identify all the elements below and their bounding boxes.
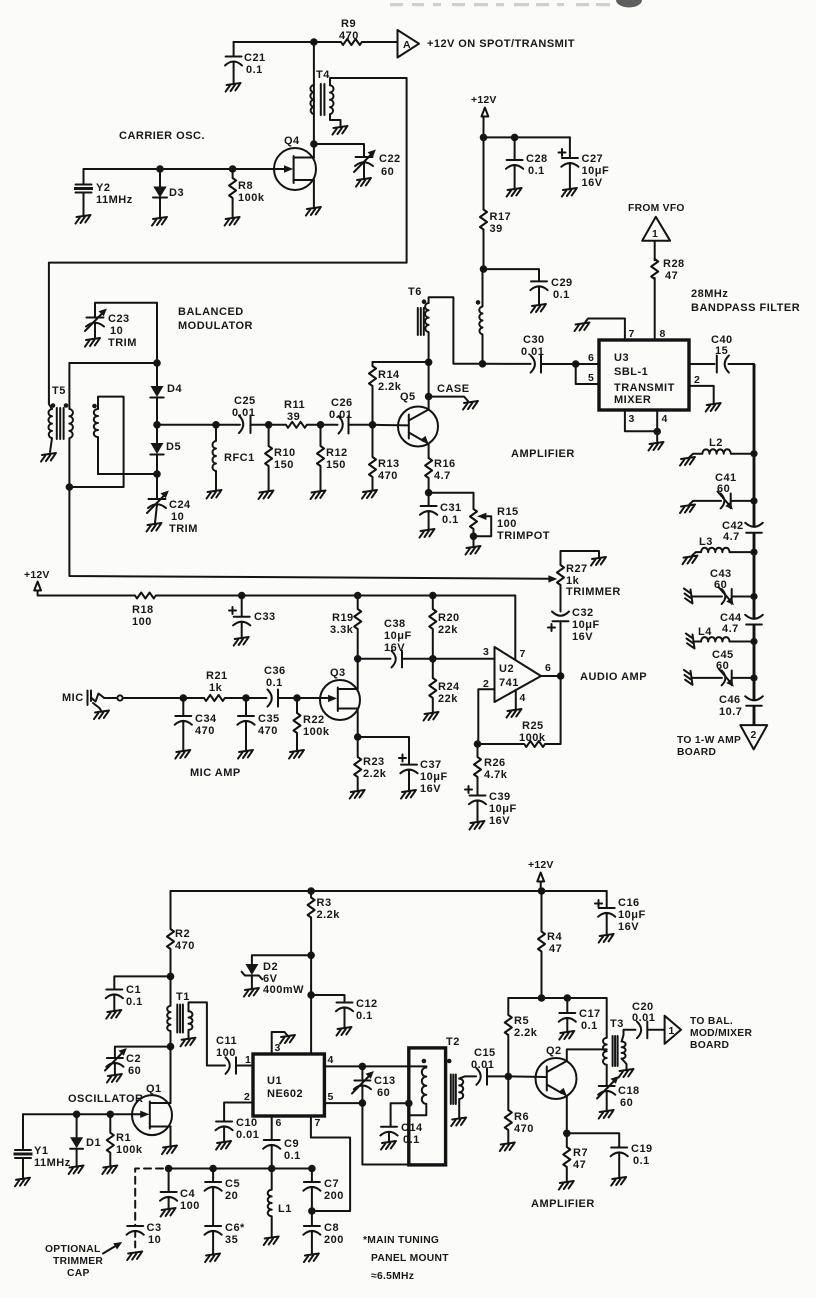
svg-text:3: 3 <box>483 646 489 658</box>
svg-text:R7: R7 <box>573 1147 588 1159</box>
svg-text:C33: C33 <box>254 611 276 623</box>
svg-text:2.2k: 2.2k <box>317 909 341 921</box>
resistor R3 <box>308 891 315 955</box>
wire carrier balance loop <box>69 397 123 487</box>
svg-text:TRIM: TRIM <box>169 523 198 535</box>
svg-text:47: 47 <box>573 1159 586 1171</box>
svg-text:3: 3 <box>629 413 635 425</box>
ground (T4) <box>333 126 348 135</box>
wire U1 pin6 to C9 <box>271 1116 273 1140</box>
junction CASE <box>425 393 433 401</box>
variable capacitor C2 <box>106 1047 170 1074</box>
svg-text:47: 47 <box>665 270 678 282</box>
svg-text:10μF: 10μF <box>582 165 610 177</box>
svg-text:D5: D5 <box>166 441 181 453</box>
node A output triangle <box>398 30 420 58</box>
ground (C35) <box>238 750 253 759</box>
ground (C27) <box>562 188 577 197</box>
svg-text:C26: C26 <box>331 397 353 409</box>
svg-text:100: 100 <box>132 616 152 628</box>
capacitor C11 <box>226 1057 254 1074</box>
svg-text:U1: U1 <box>267 1075 282 1087</box>
trimpot R15 <box>470 509 477 546</box>
junction Q3 source <box>354 733 362 741</box>
svg-text:T5: T5 <box>52 385 66 397</box>
diode D3 <box>153 169 167 217</box>
svg-text:150: 150 <box>326 459 346 471</box>
wire C21 node to Q4 drain top <box>234 41 314 43</box>
capacitor C27 (electrolytic) <box>561 137 578 188</box>
svg-text:2.2k: 2.2k <box>514 1027 538 1039</box>
ground (C8) <box>304 1254 319 1263</box>
junction Q3 drain / C38 <box>354 655 362 663</box>
capacitor C38 <box>358 651 433 668</box>
ground (R27) <box>591 557 606 566</box>
svg-text:CAP: CAP <box>67 1268 90 1279</box>
T6 secondary winding <box>479 269 482 364</box>
svg-text:22k: 22k <box>438 693 458 705</box>
svg-text:0.1: 0.1 <box>246 64 263 76</box>
resistor R5 <box>505 998 512 1076</box>
ground flag (L4) <box>686 634 695 649</box>
svg-text:C35: C35 <box>258 713 280 725</box>
svg-text:AMPLIFIER: AMPLIFIER <box>511 448 575 460</box>
resistor R19 <box>354 596 361 659</box>
resistor R8 <box>229 169 236 217</box>
wire +12V to C27 <box>484 136 570 138</box>
IC U1 box <box>253 1054 324 1116</box>
crystal Y1 <box>15 1114 31 1177</box>
svg-text:100: 100 <box>180 1200 200 1212</box>
svg-text:10: 10 <box>148 1234 161 1246</box>
svg-text:MIC AMP: MIC AMP <box>190 767 241 779</box>
svg-text:C19: C19 <box>631 1143 653 1155</box>
junction T6 secondary bottom <box>479 360 487 368</box>
svg-text:60: 60 <box>714 579 727 591</box>
svg-text:11MHz: 11MHz <box>96 194 133 206</box>
variable capacitor C24 <box>148 474 166 523</box>
svg-text:C16: C16 <box>618 897 640 909</box>
svg-text:C38: C38 <box>384 618 406 630</box>
capacitor C9 <box>263 1140 280 1169</box>
svg-text:200: 200 <box>324 1190 344 1202</box>
svg-text:60: 60 <box>381 166 394 178</box>
resistor R10 <box>265 425 272 490</box>
junction C2 <box>167 1043 175 1051</box>
svg-text:0.01: 0.01 <box>329 409 352 421</box>
svg-text:100: 100 <box>497 518 517 530</box>
svg-text:R2: R2 <box>175 928 190 940</box>
junction Q2 base node <box>505 1073 513 1081</box>
wire U1 pin7 path <box>311 1116 350 1211</box>
capacitor C40 <box>689 356 754 373</box>
svg-text:R18: R18 <box>132 604 154 616</box>
svg-text:5: 5 <box>328 1091 334 1103</box>
svg-text:BOARD: BOARD <box>677 747 716 758</box>
svg-text:C3: C3 <box>147 1222 162 1234</box>
wire T5 top link <box>69 362 157 364</box>
svg-text:T3: T3 <box>610 1018 624 1030</box>
svg-text:16V: 16V <box>618 921 639 933</box>
ground (C14) <box>381 1141 396 1150</box>
capacitor C42 <box>745 523 763 533</box>
capacitor C5 <box>205 1169 222 1226</box>
ground (C12) <box>337 1027 352 1036</box>
svg-text:U2: U2 <box>499 663 514 675</box>
wire feedback from T4 down left side to T5 primary <box>49 263 407 409</box>
svg-text:R6: R6 <box>514 1111 529 1123</box>
wire top supply bus <box>171 890 607 892</box>
resistor R26 <box>474 744 481 795</box>
T5 tertiary winding <box>94 409 98 474</box>
svg-text:MODULATOR: MODULATOR <box>178 320 253 332</box>
svg-text:0.01: 0.01 <box>232 407 255 419</box>
svg-text:≈6.5MHz: ≈6.5MHz <box>371 1271 414 1282</box>
svg-text:4.7: 4.7 <box>723 531 740 543</box>
ground (C16) <box>599 934 614 943</box>
capacitor C46 <box>745 696 763 706</box>
ground (L2) <box>680 457 695 466</box>
capacitor C34 <box>175 698 192 750</box>
capacitor C19 <box>567 1133 628 1177</box>
svg-text:60: 60 <box>128 1065 141 1077</box>
wire Q4 gate bus <box>84 168 285 170</box>
junction drain/R9 <box>310 38 318 46</box>
capacitor C36 <box>246 690 297 707</box>
resistor R17 <box>480 210 487 270</box>
svg-text:C23: C23 <box>108 313 130 325</box>
T5 phase dots <box>51 403 56 408</box>
svg-text:C22: C22 <box>379 153 401 165</box>
junction U3 pin6 node <box>572 360 580 368</box>
svg-text:35: 35 <box>225 1234 238 1246</box>
ground (Y2) <box>76 215 91 224</box>
ground (C33) <box>234 637 249 646</box>
svg-text:0.1: 0.1 <box>266 677 283 689</box>
ground (R10) <box>259 491 274 500</box>
wire mic line <box>123 697 204 699</box>
ground (R1) <box>102 1166 117 1175</box>
resistor R2 <box>167 891 174 976</box>
junction D4 top <box>153 359 161 367</box>
svg-text:R15: R15 <box>497 506 519 518</box>
capacitor C21 <box>225 42 242 83</box>
svg-text:400mW: 400mW <box>263 984 304 996</box>
junction R10 <box>265 421 273 429</box>
capacitor C30 <box>483 355 576 372</box>
svg-text:C12: C12 <box>356 998 378 1010</box>
svg-text:10μF: 10μF <box>489 803 517 815</box>
svg-text:MOD/MIXER: MOD/MIXER <box>690 1028 752 1039</box>
svg-text:TRIMMER: TRIMMER <box>566 586 621 598</box>
ground (R12) <box>311 491 326 500</box>
junction C17 <box>564 994 572 1002</box>
svg-text:6: 6 <box>588 352 594 364</box>
ground (T5 primary) <box>41 453 56 462</box>
trimmer R27 <box>557 551 599 612</box>
svg-text:R5: R5 <box>514 1015 529 1027</box>
T5 tertiary phase dot <box>92 404 97 409</box>
svg-text:15: 15 <box>715 345 728 357</box>
svg-text:0.1: 0.1 <box>403 1134 420 1146</box>
wire U2 pin6 output <box>541 672 561 744</box>
svg-text:TRIM: TRIM <box>108 337 137 349</box>
svg-text:C37: C37 <box>420 759 442 771</box>
svg-text:T4: T4 <box>316 69 330 81</box>
svg-text:A: A <box>403 39 411 51</box>
junction C28 <box>511 134 519 142</box>
svg-text:R20: R20 <box>438 612 460 624</box>
svg-text:SBL-1: SBL-1 <box>614 366 648 378</box>
resistor R11 <box>269 422 321 428</box>
svg-text:C32: C32 <box>572 607 594 619</box>
svg-text:L2: L2 <box>709 437 723 449</box>
svg-text:0.1: 0.1 <box>581 1020 598 1032</box>
svg-text:10: 10 <box>110 325 123 337</box>
svg-text:0.1: 0.1 <box>442 514 459 526</box>
junction C7/C8/pin7 <box>308 1207 316 1215</box>
capacitor C37 (electrolytic) <box>358 737 418 790</box>
svg-text:AUDIO AMP: AUDIO AMP <box>580 671 647 683</box>
junction C38/R20/R24 <box>429 655 437 663</box>
resistor R25 <box>478 741 561 747</box>
svg-text:C17: C17 <box>579 1008 601 1020</box>
svg-text:Q1: Q1 <box>146 1083 162 1095</box>
ground (C19) <box>611 1177 626 1186</box>
ground (C23) <box>85 338 100 347</box>
svg-text:C8: C8 <box>324 1222 339 1234</box>
wire T3 secondary bottom to ground <box>622 1059 627 1069</box>
wire Q3 source <box>357 709 359 738</box>
capacitor C25 <box>239 416 269 434</box>
svg-text:TRIMMER: TRIMMER <box>53 1256 103 1267</box>
ground (Y1) <box>15 1178 30 1187</box>
variable capacitor C13 <box>354 1066 371 1103</box>
svg-text:C15: C15 <box>474 1047 496 1059</box>
capacitor C16 (electrolytic) <box>542 891 616 934</box>
junction R12 <box>317 421 325 429</box>
svg-text:R16: R16 <box>434 458 456 470</box>
svg-text:741: 741 <box>499 677 519 689</box>
ground (T3 secondary) <box>619 1069 634 1078</box>
IC U3 box <box>599 340 689 410</box>
capacitor C26 <box>321 416 373 434</box>
svg-text:Q5: Q5 <box>400 391 416 403</box>
capacitor C12 <box>311 995 353 1027</box>
ground (C1) <box>106 1010 121 1019</box>
svg-text:R19: R19 <box>332 612 354 624</box>
svg-text:R12: R12 <box>326 447 348 459</box>
T5 core <box>57 408 64 439</box>
ground (C22) <box>356 178 371 187</box>
svg-text:R10: R10 <box>274 447 296 459</box>
svg-text:C7: C7 <box>324 1178 339 1190</box>
T5 secondary winding on left line <box>69 363 73 487</box>
svg-text:11MHz: 11MHz <box>34 1157 71 1169</box>
svg-text:7: 7 <box>629 328 635 340</box>
junction modulator output <box>153 421 161 429</box>
svg-text:0.1: 0.1 <box>553 289 570 301</box>
pin 3 wire <box>625 410 657 431</box>
svg-text:1k: 1k <box>209 682 223 694</box>
diode D4 <box>150 363 163 424</box>
svg-text:1: 1 <box>652 228 658 240</box>
junction C12 node <box>307 991 315 999</box>
svg-text:C9: C9 <box>284 1138 299 1150</box>
svg-text:0.1: 0.1 <box>528 165 545 177</box>
svg-text:200: 200 <box>324 1234 344 1246</box>
svg-text:C1: C1 <box>126 984 141 996</box>
svg-text:7: 7 <box>520 648 526 660</box>
capacitor C15 <box>476 1068 508 1085</box>
ground flag (C43) <box>684 589 693 604</box>
svg-text:10: 10 <box>171 511 184 523</box>
pin 3 wire + ground <box>272 1032 287 1054</box>
svg-text:0.01: 0.01 <box>236 1129 259 1141</box>
ground (C37) <box>401 790 416 799</box>
junction T6/collector <box>425 359 433 367</box>
wire CASE to ground <box>429 397 468 401</box>
svg-text:NE602: NE602 <box>267 1088 303 1100</box>
svg-text:+12V: +12V <box>471 94 497 106</box>
diode D5 <box>150 425 163 474</box>
resistor R12 <box>317 425 324 490</box>
svg-text:C14: C14 <box>401 1122 423 1134</box>
junction C7 <box>308 1165 316 1173</box>
wire R3 node to U1 pin8 <box>310 955 312 1054</box>
T6 primary winding <box>425 303 429 362</box>
junction Q2 emitter node <box>563 1130 571 1138</box>
svg-text:Q2: Q2 <box>546 1045 562 1057</box>
svg-text:470: 470 <box>195 725 215 737</box>
wire C23 top loop <box>95 303 157 363</box>
pin 7 wire + ground <box>585 319 625 341</box>
svg-text:4: 4 <box>662 413 668 425</box>
svg-text:BANDPASS FILTER: BANDPASS FILTER <box>691 302 800 314</box>
resistor R16 <box>425 458 432 493</box>
svg-text:BOARD: BOARD <box>690 1040 729 1051</box>
ground (R6) <box>500 1143 515 1152</box>
wire U2 pin 2 <box>478 689 494 744</box>
svg-text:0.01: 0.01 <box>521 346 544 358</box>
svg-text:10μF: 10μF <box>384 630 412 642</box>
pin 2 wire + ground <box>689 386 714 403</box>
inductor L3 <box>750 549 757 556</box>
svg-text:OSCILLATOR: OSCILLATOR <box>68 1093 143 1105</box>
svg-text:L4: L4 <box>698 626 712 638</box>
svg-text:TRIMPOT: TRIMPOT <box>497 530 550 542</box>
wire Q3 drain <box>357 659 359 689</box>
svg-text:10μF: 10μF <box>420 771 448 783</box>
svg-text:D3: D3 <box>169 187 184 199</box>
svg-text:4.7: 4.7 <box>722 623 739 635</box>
ground (Q4 source) <box>306 207 321 216</box>
svg-text:16V: 16V <box>582 177 603 189</box>
wire bottom resonator bus <box>166 1168 312 1170</box>
ground flag (C45) <box>684 670 693 685</box>
resistor R21 <box>204 695 246 701</box>
ground (R8) <box>225 217 240 226</box>
ground (R22) <box>289 750 304 759</box>
svg-text:T2: T2 <box>446 1036 460 1048</box>
svg-text:10μF: 10μF <box>572 619 600 631</box>
ground (Q1 source) <box>162 1146 177 1155</box>
node 2 output triangle <box>740 725 767 749</box>
svg-text:6: 6 <box>276 1117 282 1129</box>
inductor L4 <box>750 638 757 645</box>
svg-text:47: 47 <box>549 943 562 955</box>
svg-text:150: 150 <box>274 459 294 471</box>
svg-text:C21: C21 <box>244 52 266 64</box>
svg-text:C34: C34 <box>195 713 217 725</box>
ground (R7) <box>559 1181 574 1190</box>
ground (C39) <box>470 821 485 830</box>
wire pin 6 <box>576 363 599 365</box>
svg-text:2: 2 <box>483 678 489 690</box>
T2 phase dots <box>422 1059 427 1064</box>
junction R19 (bus) <box>354 592 362 600</box>
svg-text:10μF: 10μF <box>618 909 646 921</box>
svg-text:AMPLIFIER: AMPLIFIER <box>531 1198 595 1210</box>
T2 secondary winding <box>459 1079 463 1118</box>
svg-text:4: 4 <box>520 692 526 704</box>
crystal Y2 <box>76 169 92 215</box>
svg-text:60: 60 <box>716 660 729 672</box>
resistor R7 <box>563 1133 570 1181</box>
junction D3 <box>156 165 164 173</box>
variable capacitor C18 <box>598 1086 615 1110</box>
svg-text:2.2k: 2.2k <box>363 768 387 780</box>
svg-text:20: 20 <box>225 1190 238 1202</box>
wire R14 top to T6 <box>373 361 429 363</box>
svg-text:TRANSMIT: TRANSMIT <box>614 382 675 394</box>
wire Q1 source to ground <box>170 1127 172 1146</box>
inductor RFC1 <box>212 425 216 490</box>
node 1 output triangle <box>665 1016 681 1044</box>
capacitor C1 <box>106 976 171 1010</box>
pin 4 wire <box>656 410 658 442</box>
wire carrier-balance line to R27 <box>69 487 548 579</box>
svg-text:100k: 100k <box>303 726 330 738</box>
svg-text:100: 100 <box>216 1047 236 1059</box>
svg-text:0.01: 0.01 <box>632 1012 655 1024</box>
svg-text:3.3k: 3.3k <box>330 624 354 636</box>
ground (C6) <box>205 1254 220 1263</box>
svg-text:470: 470 <box>378 470 398 482</box>
wire U1 pin4 to T2 <box>324 1065 426 1067</box>
ground (C2) <box>107 1074 122 1083</box>
junction R17 bottom <box>480 265 488 273</box>
ground (C31) <box>420 529 435 538</box>
svg-text:0.1: 0.1 <box>633 1155 650 1167</box>
resistor R4 <box>538 891 545 998</box>
resistor R23 <box>354 737 361 790</box>
svg-text:C10: C10 <box>236 1117 258 1129</box>
svg-text:C18: C18 <box>618 1085 640 1097</box>
capacitor C35 <box>237 698 254 750</box>
svg-text:R8: R8 <box>238 180 253 192</box>
capacitor C33 (electrolytic) <box>233 596 250 638</box>
svg-text:4: 4 <box>328 1054 334 1066</box>
junction R16/C31 <box>425 489 433 497</box>
svg-text:100k: 100k <box>238 192 265 204</box>
inductor L2 <box>750 450 757 457</box>
wire to Q3 gate with arrow <box>297 697 328 699</box>
wire Q1 gate bus <box>23 1113 141 1115</box>
ground (T1 secondary) <box>181 1038 196 1047</box>
svg-text:R28: R28 <box>663 258 685 270</box>
svg-text:D1: D1 <box>86 1137 101 1149</box>
